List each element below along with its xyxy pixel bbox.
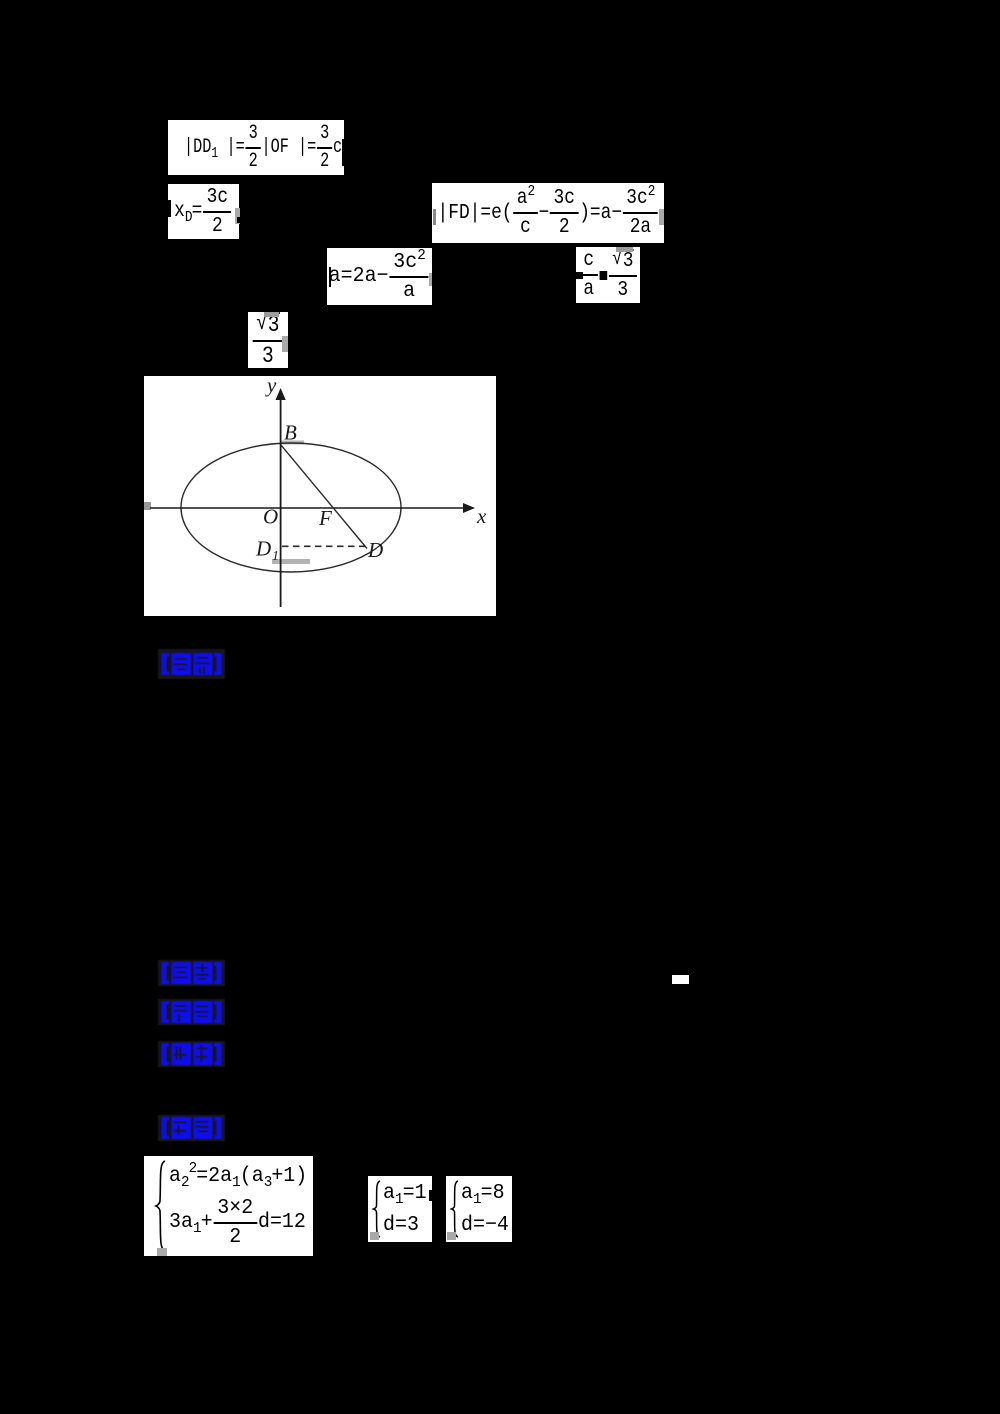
labels xyxy=(255,373,487,564)
ellipse xyxy=(181,443,401,572)
x axis xyxy=(150,507,466,509)
svg-text:1: 1 xyxy=(272,549,279,564)
gray corner square of fG xyxy=(157,1248,167,1256)
y axis xyxy=(280,396,282,607)
gray tick right edge of fD xyxy=(429,273,432,286)
formula image: a=2a-3c2/a xyxy=(327,248,432,305)
cut bar right edge of fA xyxy=(342,139,345,166)
black wedge right edge of fB xyxy=(237,217,240,223)
formula image: a1=1, d=3 xyxy=(368,1176,432,1242)
blue label 4 xyxy=(157,1041,226,1067)
formula image: system a2^2=2a1(a3+1); 3a1+3x2/2 d=12 xyxy=(144,1156,313,1256)
black tick left edge of fD xyxy=(329,267,332,287)
formula image: sqrt3/3 xyxy=(248,312,288,368)
line B to D xyxy=(281,445,367,549)
figure: ellipse diagram xyxy=(144,376,496,616)
gray patch right of fF xyxy=(282,336,288,352)
gray patch top of fF xyxy=(264,312,279,317)
gray patch top-right of fE xyxy=(616,247,633,252)
formula image: a1=8, d=-4 xyxy=(446,1176,512,1242)
black tick left edge of fE xyxy=(576,272,583,279)
dashed line D1 to D xyxy=(282,545,366,547)
svg-text:x: x xyxy=(476,504,487,528)
gray smudge bottom of ellipse xyxy=(272,559,310,564)
black dot right of fF xyxy=(284,341,289,346)
white dash xyxy=(672,975,689,984)
svg-text:y: y xyxy=(265,376,277,397)
gray corner square of fH xyxy=(370,1232,379,1240)
gray square at left edge xyxy=(144,502,151,510)
svg-text:O: O xyxy=(263,505,278,529)
gray corner square of fI xyxy=(447,1232,456,1240)
formula image: |FD|=e(a2/c-3c/2)=a-3c2/2a xyxy=(432,183,664,243)
formula image: xD=3c/2 xyxy=(168,184,239,239)
black tick left edge of fB xyxy=(168,200,171,217)
svg-text:D: D xyxy=(255,537,271,561)
black wedge right edge of fD xyxy=(430,279,433,286)
formula image: |DD1|=3/2|OF|=3/2c xyxy=(168,120,344,175)
svg-text:F: F xyxy=(318,506,332,530)
svg-text:B: B xyxy=(284,421,297,445)
gray tick left edge of fC xyxy=(433,209,436,225)
formula image: c/a = sqrt3/3 xyxy=(576,247,640,303)
black sliver right edge of fH xyxy=(429,1190,432,1201)
blue label 1 xyxy=(157,649,226,679)
svg-text:D: D xyxy=(367,538,383,562)
blue label 5 xyxy=(157,1115,226,1141)
blue label 2 xyxy=(157,960,226,986)
gray tick right edge of fC xyxy=(659,209,664,225)
gray smudge near B xyxy=(281,441,304,445)
blue label 3 xyxy=(157,999,226,1025)
gray patch right edge of fB xyxy=(235,208,240,224)
